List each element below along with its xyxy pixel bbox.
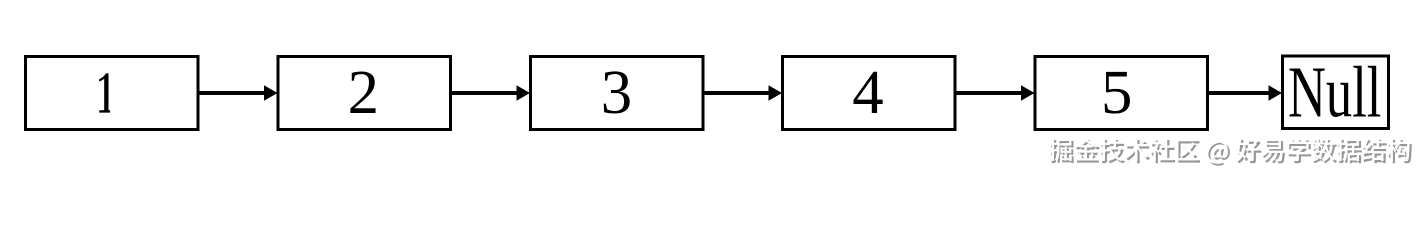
node box 5 xyxy=(1035,57,1208,130)
svg-text:2: 2 xyxy=(348,57,379,127)
node box 4 xyxy=(783,57,956,130)
svg-text:4: 4 xyxy=(852,57,883,127)
watermark 掘金技术社区 @ 好易学数据结构 xyxy=(1049,138,1412,166)
node box 3 xyxy=(531,57,704,130)
arrow from node 4 xyxy=(956,85,1035,101)
arrow from node 2 xyxy=(451,85,530,101)
arrow from node 1 xyxy=(199,85,278,101)
node box 1 xyxy=(26,57,199,130)
null terminator box xyxy=(1283,51,1389,132)
svg-text:Null: Null xyxy=(1288,51,1381,132)
svg-text:5: 5 xyxy=(1101,57,1132,127)
arrow from node 5 xyxy=(1208,85,1282,101)
svg-text:3: 3 xyxy=(601,57,632,127)
node box 2 xyxy=(278,57,451,130)
arrow from node 3 xyxy=(704,85,783,101)
